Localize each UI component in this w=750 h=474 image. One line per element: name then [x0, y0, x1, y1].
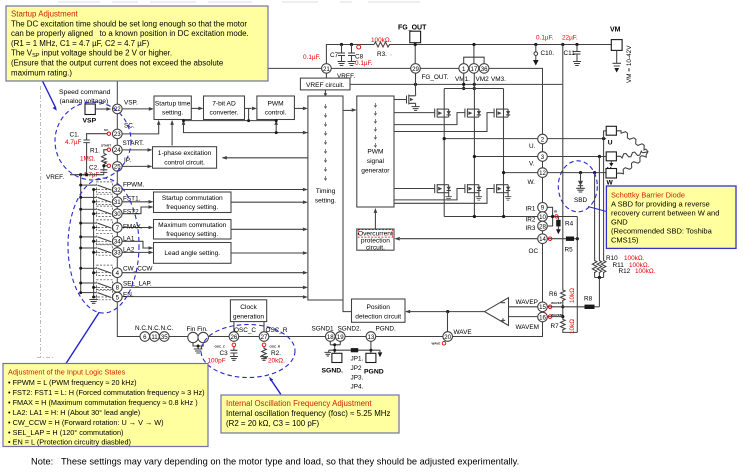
svg-text:VREF.: VREF. [46, 174, 64, 181]
lead angle to timing [231, 252, 303, 254]
svg-text:27: 27 [261, 334, 268, 341]
svg-text:VM: VM [610, 27, 621, 34]
comparator output to position detection [406, 311, 485, 313]
svg-text:VSP: VSP [83, 118, 97, 125]
svg-text:W.: W. [528, 179, 536, 186]
IR pins tie bracket [547, 207, 577, 226]
svg-text:R2.: R2. [271, 350, 281, 357]
control feedback lines below blocks [184, 120, 277, 122]
START wire to 1-phase [122, 149, 147, 151]
page margin dash-dot line [37, 86, 55, 358]
OC line with R5 [547, 238, 566, 240]
capacitor C10 [534, 45, 538, 61]
pin 18 SGND1 [326, 332, 336, 342]
svg-text:VM3.: VM3. [491, 76, 506, 83]
test point marker (red) on VREF rail [357, 45, 361, 49]
resistor R2 [262, 343, 266, 347]
svg-text:VM1.: VM1. [455, 76, 470, 83]
W phase rail [504, 172, 538, 174]
svg-text:(R1 = 1 MHz, C1 = 4.7 µF, C2 =: (R1 = 1 MHz, C1 = 4.7 µF, C2 = 4.7 µF) [11, 39, 150, 48]
pin 6 NC [140, 332, 150, 342]
svg-text:IR2: IR2 [526, 217, 536, 224]
PGND pad [366, 353, 376, 362]
top edge remnant marks [58, 1, 420, 3]
V phase rail [474, 156, 537, 158]
pin 31 FST1 [113, 197, 123, 207]
svg-text:WAVEP: WAVEP [516, 299, 538, 306]
pin 3 V [538, 152, 548, 162]
svg-text:JP3.: JP3. [351, 374, 364, 381]
svg-text:35: 35 [161, 334, 168, 341]
svg-text:22µF.: 22µF. [562, 35, 578, 42]
input bus ground [89, 300, 98, 304]
svg-text:Startup Adjustment: Startup Adjustment [11, 10, 78, 19]
vertical A (VM aux line) [562, 45, 564, 290]
svg-text:VSP.: VSP. [124, 100, 138, 107]
svg-text:OC: OC [529, 248, 539, 255]
svg-text:14: 14 [539, 236, 546, 243]
block: PWM signal generator [357, 96, 394, 207]
VM ground symbol [613, 50, 622, 66]
svg-text:Startup time: Startup time [155, 101, 191, 108]
svg-text:Speed command: Speed command [59, 89, 111, 96]
Fin pads [188, 332, 198, 342]
note box: Startup Adjustment [6, 6, 268, 81]
resistor R10 [592, 259, 597, 273]
svg-text:frequency setting.: frequency setting. [166, 231, 218, 238]
svg-text:FST1.: FST1. [123, 196, 141, 203]
svg-text:0.1µF.: 0.1µF. [355, 60, 373, 67]
low-side MOSFET QL2 [465, 184, 479, 193]
pin 14 OC [538, 234, 548, 244]
svg-text:recovery current between W and: recovery current between W and [611, 209, 719, 218]
svg-text:CMS15): CMS15) [611, 236, 639, 245]
svg-text:12: 12 [539, 170, 546, 177]
sense tap V [598, 157, 600, 260]
svg-text:• FST2: FST1 = L: H (Forced co: • FST2: FST1 = L: H (Forced commutation … [8, 388, 205, 397]
block: Startup time setting [154, 96, 191, 120]
WAVEP line [509, 306, 585, 308]
svg-text:A SBD for providing a reverse: A SBD for providing a reverse [611, 200, 710, 209]
svg-text:Internal Oscillation Frequency: Internal Oscillation Frequency Adjustmen… [226, 399, 372, 408]
pin 16 WAVEM [538, 312, 548, 322]
SC node marker [107, 132, 110, 135]
svg-text:WAVE: WAVE [454, 329, 472, 336]
note box: Adjustment of the Input Logic States [3, 364, 208, 447]
svg-text:N.C.N.C.N.C.: N.C.N.C.N.C. [135, 325, 174, 332]
svg-text:• SEL_LAP = H (120° commutatio: • SEL_LAP = H (120° commutation) [8, 428, 123, 437]
svg-text:R3.: R3. [377, 51, 387, 58]
input bus VREF side [80, 175, 82, 293]
FG output transistor Q-FG [394, 93, 415, 107]
svg-text:25: 25 [114, 164, 121, 171]
pin 15 WAVEP [538, 302, 548, 312]
pin 7 FMAX [113, 223, 123, 233]
FST1 wire [122, 201, 148, 203]
block: Overcurrent protection circuit [357, 229, 394, 251]
pin 19 SGND2 [336, 332, 346, 342]
top VREF/FG_OUT rail [326, 45, 611, 64]
high-side MOSFET QH2 [465, 109, 479, 118]
svg-text:16: 16 [539, 314, 546, 321]
svg-text:IR1: IR1 [526, 205, 536, 212]
svg-text:C2.: C2. [89, 164, 99, 171]
switch row SEL_LAP [81, 280, 113, 290]
Fin ground [193, 343, 203, 353]
svg-text:28: 28 [539, 223, 546, 230]
svg-text:U.: U. [529, 143, 536, 150]
svg-text:36: 36 [481, 66, 488, 73]
timing to pwm-sig arrow [343, 109, 352, 111]
capacitor C1 [83, 134, 107, 175]
svg-text:• CW_CCW = H (Forward rotation: • CW_CCW = H (Forward rotation: U → V → … [8, 418, 164, 427]
note box: Internal Oscillation Frequency Adjustment [221, 395, 399, 433]
svg-text:Note: These settings may var: Note: These settings may vary depending … [31, 457, 519, 467]
resistor R12 [601, 259, 606, 273]
pin 34 LA1 [113, 237, 123, 247]
svg-text:Position: Position [366, 304, 390, 311]
position to timing? arrow into timing bottom [340, 299, 342, 301]
switch row CW_CCW [81, 265, 113, 275]
W rail to pad [547, 172, 606, 174]
pin 24 START [113, 145, 123, 155]
svg-text:17: 17 [471, 66, 478, 73]
pin21 stub to VREF circuit [325, 73, 327, 78]
FG_OUT pad [410, 31, 421, 43]
internal VM feed line [350, 83, 563, 85]
svg-text:V.: V. [529, 161, 535, 168]
svg-text:31: 31 [114, 199, 121, 206]
svg-text:setting.: setting. [162, 110, 183, 117]
svg-text:generation: generation [233, 314, 264, 321]
block: PWM control [257, 96, 295, 120]
switch row FMAX [81, 220, 113, 230]
PGND arrow [379, 350, 381, 352]
pin 9 IR1 [538, 203, 548, 213]
svg-text:R5: R5 [565, 247, 574, 254]
svg-text:C11: C11 [564, 50, 576, 57]
svg-text:26: 26 [231, 334, 238, 341]
svg-text:VM2: VM2 [476, 76, 490, 83]
svg-text:• EN = L (Protection circuitry: • EN = L (Protection circuitry diasbled) [8, 438, 131, 447]
timing to position wire [343, 300, 352, 312]
svg-text:SBD: SBD [574, 197, 588, 204]
SBD pointer line [588, 207, 606, 212]
svg-text:0.1µF.: 0.1µF. [536, 35, 554, 42]
pin29 stub to FG transistor [415, 73, 417, 93]
high-side MOSFET QH1 [435, 109, 449, 118]
svg-text:SGND1: SGND1 [312, 326, 334, 333]
svg-text:Internal oscillation frequency: Internal oscillation frequency (fosc) ≈ … [226, 409, 390, 418]
svg-text:U: U [608, 140, 613, 147]
FMAX wire [122, 227, 148, 229]
svg-text:FG_OUT: FG_OUT [398, 25, 427, 32]
svg-text:1-phase excitation: 1-phase excitation [158, 150, 212, 157]
VSP pad [85, 104, 95, 115]
VREF circuit to Timing arrow [324, 90, 326, 95]
svg-text:generator: generator [361, 168, 390, 175]
switch row LA1 [81, 234, 113, 244]
capacitor C8 [348, 45, 356, 66]
blue line from logic note to ellipse B [66, 312, 99, 363]
svg-text:13: 13 [368, 334, 375, 341]
svg-text:Fin Fin.: Fin Fin. [187, 326, 209, 333]
svg-text:control circuit.: control circuit. [164, 159, 205, 166]
max-comm to timing [231, 228, 303, 230]
VM pad [611, 40, 622, 51]
SEL_LAP wire to timing [122, 286, 303, 288]
sense tap U [603, 139, 605, 259]
U rail to pad [547, 138, 606, 140]
svg-text:START.: START. [123, 140, 145, 147]
capacitor C3 [232, 343, 236, 347]
svg-text:4.7µF: 4.7µF [65, 139, 82, 146]
oscillator highlight ellipse [201, 325, 295, 378]
highlight ellipse B (logic switches) [68, 178, 139, 313]
svg-text:PGND: PGND [364, 368, 384, 375]
motor windings [616, 131, 648, 174]
switch row FST2 [81, 206, 113, 216]
svg-text:Clock: Clock [240, 304, 257, 311]
capacitor C7 [338, 45, 346, 66]
IC pin ring rails [117, 68, 542, 336]
svg-text:Lead angle setting.: Lead angle setting. [164, 250, 220, 257]
switch row EN [81, 289, 113, 299]
gate drive lines low side [394, 189, 494, 204]
SC wire into startup block [122, 125, 159, 134]
IP node marker [107, 164, 110, 167]
svg-text:1MΩ.: 1MΩ. [80, 155, 96, 162]
svg-text:START: START [101, 144, 111, 148]
resistor R8 [585, 305, 595, 309]
svg-text:can be properly aligned to a: can be properly aligned to a known posit… [11, 29, 249, 38]
svg-text:100kΩ.: 100kΩ. [635, 268, 656, 275]
svg-text:R4: R4 [565, 221, 574, 228]
EN wire to timing [122, 296, 303, 298]
VSP wire to pin 22 [95, 108, 106, 110]
svg-text:19: 19 [337, 334, 344, 341]
svg-text:PWM: PWM [367, 149, 383, 156]
high-side MOSFET QH3 [494, 109, 508, 118]
switch row LA2 [81, 245, 113, 255]
block: Lead angle setting [154, 243, 232, 264]
LA1 wire [122, 241, 148, 248]
highlight ellipse A (VSP/RC) [55, 102, 131, 180]
svg-text:33: 33 [114, 250, 121, 257]
overcurrent to pwm-sig arrow [374, 213, 376, 230]
svg-text:setting.: setting. [315, 198, 336, 205]
input bus GND side [93, 190, 95, 299]
svg-text:11: 11 [151, 334, 158, 341]
svg-text:converter.: converter. [210, 110, 239, 117]
pin 8 SEL_LAP [113, 283, 123, 293]
gate drive lines high side [394, 113, 494, 132]
pin 21 VREF [322, 64, 332, 74]
START node marker [107, 148, 110, 151]
svg-text:OSC_R: OSC_R [270, 344, 281, 348]
svg-text:(Ensure that the output curren: (Ensure that the output current does not… [11, 59, 224, 68]
svg-text:R12: R12 [619, 268, 631, 275]
W motor pad [606, 169, 617, 179]
block: Position detection circuit [352, 299, 406, 322]
V rail to pad [547, 156, 606, 158]
svg-text:OSC_C: OSC_C [234, 327, 256, 334]
pin 17 VM2 [469, 64, 479, 74]
SBD highlight ellipse [558, 161, 597, 212]
svg-text:32: 32 [114, 187, 121, 194]
svg-text:GND: GND [611, 218, 628, 227]
block: Timing setting [308, 96, 343, 300]
pin 25 IP [113, 162, 123, 172]
svg-text:10kΩ: 10kΩ [569, 319, 576, 334]
svg-text:VM = 10-42V: VM = 10-42V [626, 45, 633, 83]
svg-text:21: 21 [323, 66, 330, 73]
pin 1 VM1 [459, 64, 469, 74]
note box: Schottky Barrier Diode [606, 186, 736, 248]
block: 7-bit AD converter [204, 96, 245, 120]
pin1 stub to drain bus [463, 73, 465, 88]
svg-text:circuit.: circuit. [366, 244, 385, 251]
svg-text:JP4.: JP4. [351, 384, 364, 391]
ferrite bead JP [351, 348, 358, 352]
svg-text:• FPWM = L (PWM frequency ≈ 20: • FPWM = L (PWM frequency ≈ 20 kHz) [8, 378, 137, 387]
svg-text:7-bit AD: 7-bit AD [212, 101, 236, 108]
svg-text:C1.: C1. [70, 132, 80, 139]
svg-text:The DC excitation time should: The DC excitation time should be set lon… [11, 19, 247, 28]
svg-text:Startup commutation: Startup commutation [162, 195, 223, 202]
startup-comm to timing [231, 201, 303, 203]
U motor pad [606, 126, 616, 135]
resistor R6 [561, 289, 566, 300]
pin 35 NC [160, 332, 170, 342]
svg-text:maximum rating.): maximum rating.) [11, 68, 72, 77]
svg-text:FPWM.: FPWM. [123, 182, 145, 189]
resistor R11 [597, 259, 602, 273]
svg-text:SGND.: SGND. [322, 367, 344, 374]
svg-text:SGND2.: SGND2. [338, 326, 362, 333]
pin 36 VM3 [479, 64, 489, 74]
pin 10 IR2 [538, 212, 548, 222]
pin 23 SC [113, 129, 123, 139]
resistor R1 [102, 150, 108, 166]
pin17 stub to drain bus [473, 73, 475, 88]
VREF circuit block [300, 78, 350, 90]
VSP wire pin22 to startup block [122, 108, 149, 110]
svg-text:C10.: C10. [541, 50, 555, 57]
vertical B (IR/OC loop down) [576, 217, 578, 333]
resistor R3 [374, 42, 390, 47]
svg-text:WAVEM: WAVEM [551, 313, 563, 317]
low-side MOSFET QL3 [494, 184, 508, 193]
LA2 wire [122, 251, 148, 253]
capacitor C11 [573, 45, 581, 66]
pin 32 FPWM [113, 185, 123, 195]
svg-text:34: 34 [114, 239, 121, 246]
junction dots top rail [340, 43, 579, 46]
svg-text:VREF circuit.: VREF circuit. [306, 82, 345, 89]
svg-text:24: 24 [114, 147, 121, 154]
switch row FST1 [81, 194, 113, 204]
svg-text:Timing: Timing [316, 188, 336, 195]
svg-text:frequency setting.: frequency setting. [166, 204, 218, 211]
SGND pad [332, 353, 342, 362]
FPWM wire to timing [122, 189, 303, 191]
svg-text:30: 30 [114, 211, 121, 218]
pin 11 NC [150, 332, 160, 342]
SGND net [325, 341, 381, 356]
pin 33 LA2 [113, 248, 123, 258]
resistor R7 [561, 318, 566, 330]
svg-text:20: 20 [444, 334, 451, 341]
block: Maximum commutation frequency setting [154, 220, 232, 240]
svg-text:control.: control. [265, 110, 287, 117]
svg-text:(Recommended SBD: Toshiba: (Recommended SBD: Toshiba [611, 227, 713, 236]
svg-text:100kΩ.: 100kΩ. [371, 37, 392, 44]
svg-text:detection circuit: detection circuit [355, 314, 401, 321]
svg-text:10: 10 [539, 214, 546, 221]
svg-text:C3: C3 [220, 350, 229, 357]
svg-text:LA2: LA2 [123, 247, 135, 254]
svg-text:20kΩ.: 20kΩ. [268, 358, 285, 365]
svg-text:18: 18 [327, 334, 334, 341]
svg-text:Adjustment of the Input Logic: Adjustment of the Input Logic States [8, 368, 126, 377]
pin 27 OSC_R [259, 332, 269, 342]
IP wire to 1-phase [122, 165, 147, 167]
pin 12 W [538, 168, 548, 178]
svg-text:(R2 = 20 kΩ, C3 = 100 pF): (R2 = 20 kΩ, C3 = 100 pF) [226, 419, 320, 428]
svg-text:(analog voltage): (analog voltage) [60, 98, 109, 105]
resistor R4 [557, 217, 559, 220]
svg-text:0.1µF.: 0.1µF. [303, 54, 321, 61]
FST2 wire [122, 207, 148, 214]
capacitor C2 [100, 166, 107, 175]
svg-text:JP1.: JP1. [351, 355, 364, 362]
block: Startup commutation frequency setting [154, 192, 232, 213]
pin 4 CW_CCW [113, 268, 123, 278]
wire startup->AD [191, 107, 199, 109]
block: 1-phase excitation control circuit [153, 147, 217, 169]
svg-text:SEL_LAP.: SEL_LAP. [123, 281, 152, 288]
svg-text:WAVE: WAVE [432, 342, 441, 346]
output stage drain bus [444, 88, 503, 90]
blue arrow from osc note to ellipse C [270, 379, 281, 395]
svg-text:23: 23 [114, 131, 121, 138]
svg-text:R6: R6 [549, 291, 558, 298]
svg-text:• LA2: LA1 = H: H (About 30° l: • LA2: LA1 = H: H (About 30° lead angle) [8, 408, 140, 417]
OC wire from pin14 to overcurrent block [400, 238, 538, 240]
svg-text:JP2: JP2 [351, 365, 362, 372]
pin 28 IR3 [538, 221, 548, 231]
pin 20 WAVE [443, 332, 453, 342]
pin 2 U [538, 134, 548, 144]
svg-text:CW_CCW: CW_CCW [123, 266, 153, 273]
svg-text:LA1: LA1 [123, 236, 135, 243]
clock gen stubs to pins [234, 322, 264, 332]
VM pins bracket to VM rail [464, 45, 484, 64]
svg-text:10kΩ: 10kΩ [569, 288, 576, 303]
svg-text:WAVEM: WAVEM [516, 324, 539, 331]
svg-text:R7: R7 [551, 323, 560, 330]
Timing to 1-phase wire [223, 157, 308, 159]
pin 13 PGND [366, 332, 376, 342]
svg-text:FG_OUT.: FG_OUT. [422, 74, 449, 81]
WAVEM line [509, 316, 563, 318]
svg-text:PGND.: PGND. [376, 326, 396, 333]
svg-text:FMAX.: FMAX. [123, 224, 143, 231]
wire PWM control->Timing [294, 107, 303, 109]
pin 26 OSC_C [229, 332, 239, 342]
wire AD->PWM control [245, 107, 252, 109]
